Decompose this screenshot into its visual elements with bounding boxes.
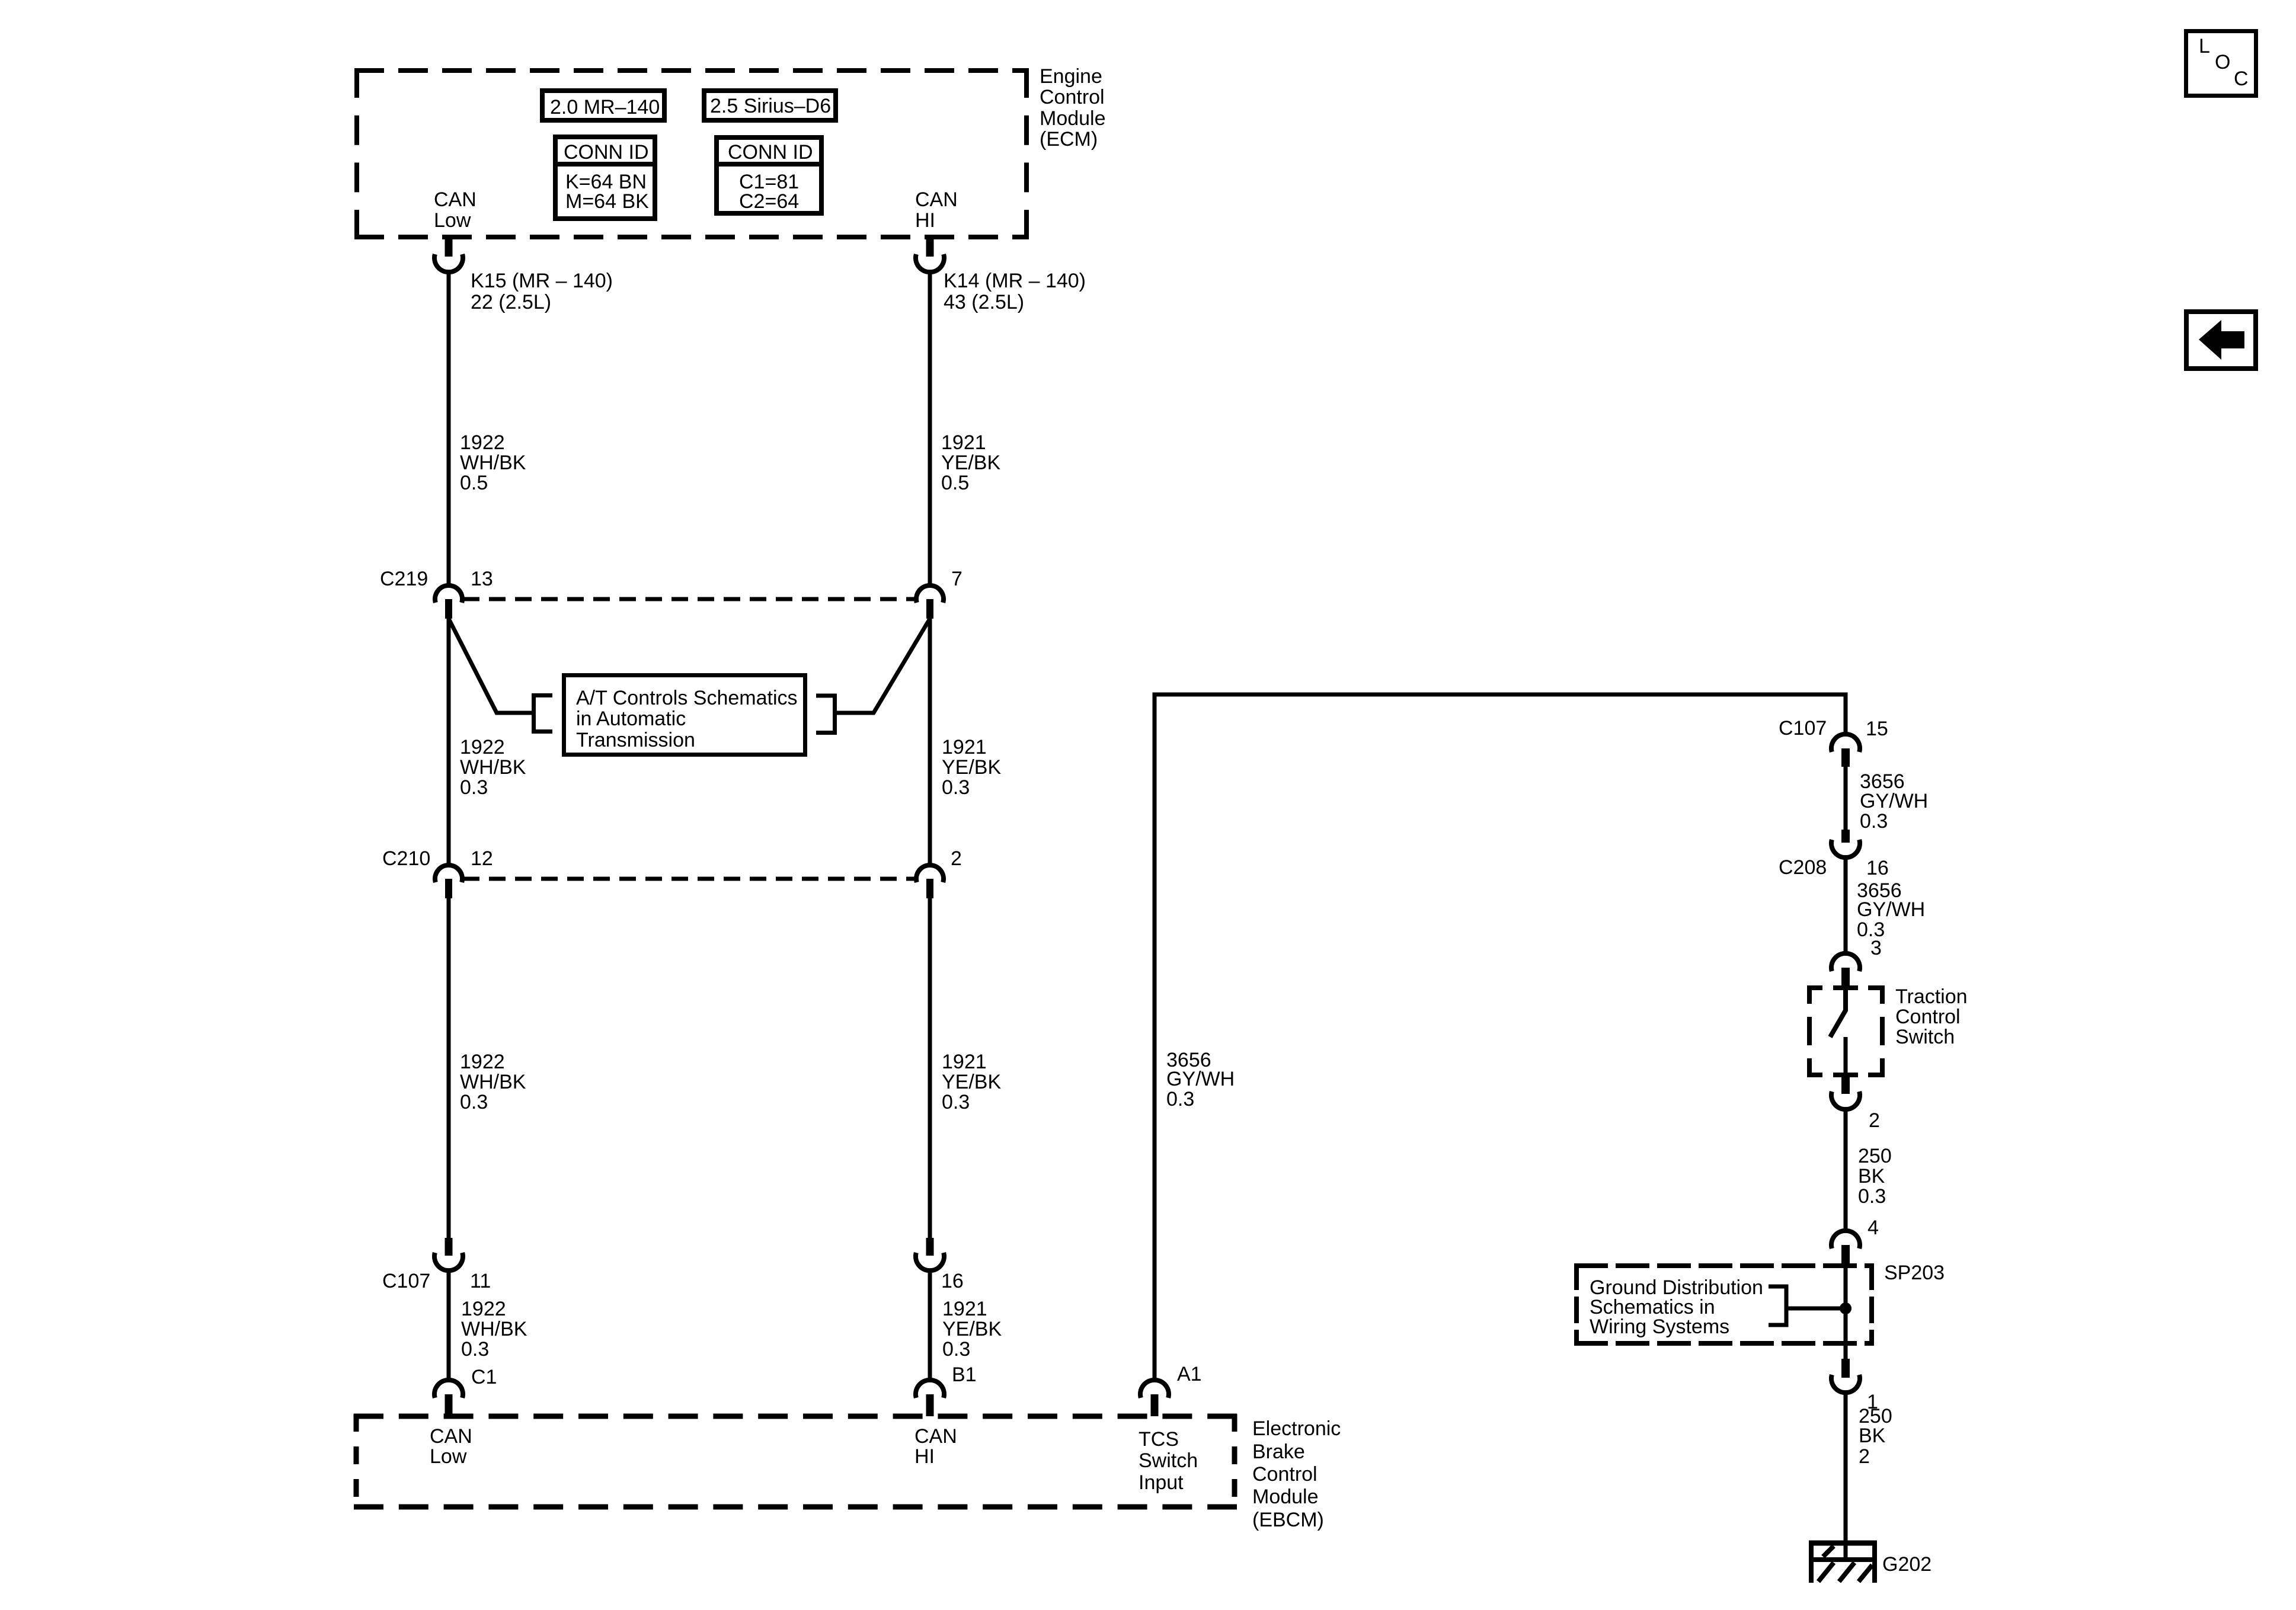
ECM module dashed box (Engine Control Module) — [354, 68, 1029, 239]
svg-text:CONN ID: CONN ID — [728, 141, 813, 164]
connector C219 pin 7 (dome and stub) — [916, 585, 944, 619]
connector A1 at EBCM (dome and stub) — [1140, 1380, 1169, 1416]
svg-text:11: 11 — [470, 1270, 491, 1292]
label K15 pin — [471, 270, 613, 313]
svg-text:Switch: Switch — [1895, 1026, 1955, 1048]
C210 in-line connector dashed line — [463, 877, 916, 881]
svg-text:0.3: 0.3 — [461, 1338, 489, 1361]
svg-text:Engine: Engine — [1040, 65, 1102, 88]
svg-text:2: 2 — [951, 847, 962, 870]
svg-text:M=64 BK: M=64 BK — [565, 190, 649, 213]
svg-text:Low: Low — [434, 209, 471, 232]
svg-text:WH/BK: WH/BK — [461, 1318, 527, 1340]
2.0 MR-140 variant box — [542, 91, 664, 120]
label K14 pin — [944, 270, 1086, 313]
C219 in-line connector dashed line — [463, 597, 916, 601]
svg-text:7: 7 — [951, 568, 962, 590]
Traction Control Switch dashed box — [1807, 985, 1885, 1077]
svg-text:YE/BK: YE/BK — [942, 1071, 1001, 1093]
svg-text:B1: B1 — [952, 1363, 977, 1386]
splice junction dot SP203 — [1840, 1302, 1851, 1314]
svg-text:WH/BK: WH/BK — [460, 756, 526, 779]
svg-text:43 (2.5L): 43 (2.5L) — [944, 291, 1024, 313]
connector C219 pin 13 (dome and stub) — [435, 585, 462, 619]
svg-text:Low: Low — [430, 1445, 467, 1468]
svg-text:YE/BK: YE/BK — [942, 756, 1001, 779]
svg-text:A1: A1 — [1177, 1363, 1202, 1385]
connector pin 2 at switch (stub and cup) — [1831, 1075, 1860, 1109]
connector C107 pin 15 (dome and stub) — [1831, 734, 1860, 767]
svg-text:0.3: 0.3 — [942, 1091, 970, 1113]
svg-text:Control: Control — [1040, 86, 1105, 108]
svg-text:GY/WH: GY/WH — [1166, 1068, 1235, 1090]
svg-text:CAN: CAN — [915, 188, 958, 211]
wire label 3656 GY/WH 0.3 (C208 to switch) — [1857, 879, 1925, 941]
connector B1 at EBCM (dome and stub) — [916, 1380, 944, 1416]
svg-text:C107: C107 — [382, 1270, 430, 1292]
svg-text:CAN: CAN — [914, 1425, 957, 1448]
2.5 Sirius-D6 variant box — [704, 91, 836, 120]
svg-text:Input: Input — [1139, 1471, 1184, 1494]
svg-text:in Automatic: in Automatic — [576, 708, 686, 730]
svg-text:O: O — [2215, 51, 2230, 73]
svg-text:GY/WH: GY/WH — [1860, 790, 1928, 812]
svg-text:CAN: CAN — [434, 188, 477, 211]
connector C107 pin 11 (stub and cup) — [434, 1238, 463, 1270]
EBCM pin label TCS Switch Input — [1139, 1428, 1198, 1494]
A/T Controls Schematics reference box — [564, 676, 805, 755]
Ground Distribution reference label — [1590, 1276, 1763, 1338]
connector C107 pin 16 (stub and cup) — [916, 1238, 944, 1270]
svg-text:2.5 Sirius–D6: 2.5 Sirius–D6 — [710, 95, 831, 117]
svg-text:1921: 1921 — [942, 736, 987, 758]
wire label 1922 WH/BK 0.5 — [460, 431, 526, 494]
EBCM module dashed box (Electronic Brake Control Module) — [354, 1414, 1237, 1509]
wire label 1922 WH/BK 0.3 (upper) — [460, 736, 526, 799]
svg-text:C210: C210 — [382, 847, 430, 870]
wire label 1921 YE/BK 0.3 (upper) — [942, 736, 1001, 799]
svg-text:0.3: 0.3 — [942, 1338, 970, 1361]
wire label 3656 GY/WH 0.3 (TCS riser) — [1166, 1049, 1235, 1110]
svg-text:CONN ID: CONN ID — [564, 141, 649, 164]
svg-text:0.3: 0.3 — [460, 776, 488, 799]
svg-text:BK: BK — [1859, 1425, 1886, 1447]
bracket left of A/T controls box — [534, 696, 553, 732]
svg-text:Switch: Switch — [1139, 1449, 1198, 1472]
wire label 1921 YE/BK 0.3 (lower) — [942, 1298, 1002, 1361]
switch blade (open) — [1830, 990, 1846, 1037]
svg-text:13: 13 — [471, 568, 493, 590]
svg-text:12: 12 — [471, 847, 493, 870]
svg-text:G202: G202 — [1882, 1553, 1932, 1576]
wire CAN HI C210 to C107 — [928, 898, 932, 1238]
svg-text:SP203: SP203 — [1884, 1262, 1945, 1284]
svg-text:Module: Module — [1252, 1486, 1319, 1508]
svg-text:0.5: 0.5 — [941, 472, 969, 494]
svg-text:Electronic: Electronic — [1252, 1417, 1341, 1440]
svg-text:GY/WH: GY/WH — [1857, 898, 1925, 921]
wire C107 to C208 — [1844, 767, 1848, 830]
svg-text:L: L — [2199, 35, 2210, 57]
svg-text:Module: Module — [1040, 107, 1106, 130]
svg-text:2: 2 — [1859, 1445, 1870, 1468]
svg-text:HI: HI — [915, 209, 935, 232]
svg-text:0.3: 0.3 — [460, 1091, 488, 1113]
wire branch to A/T controls (right diagonal) — [837, 619, 930, 713]
wire label 250 BK 0.3 — [1858, 1145, 1892, 1208]
bracket right of A/T controls box — [816, 696, 835, 733]
wire CAN Low from ECM to C219 — [447, 271, 451, 586]
connector C210 pin 2 (dome and stub) — [916, 865, 944, 898]
wire branch to A/T controls (left diagonal) — [449, 619, 532, 713]
svg-text:K15 (MR – 140): K15 (MR – 140) — [471, 270, 613, 292]
wire CAN HI from ECM to C219 — [928, 271, 932, 586]
ECM pin label CAN HI — [915, 188, 958, 232]
wire CAN Low C210 to C107 — [447, 898, 451, 1238]
svg-text:0.3: 0.3 — [1166, 1088, 1194, 1110]
svg-text:C208: C208 — [1779, 856, 1827, 879]
connector K14 at ECM (stub and cup) — [916, 237, 944, 272]
back-arrow navigation box — [2186, 312, 2256, 369]
svg-text:WH/BK: WH/BK — [460, 452, 526, 474]
LOC reference box — [2186, 31, 2256, 96]
svg-text:Control: Control — [1895, 1006, 1961, 1028]
ECM module name label — [1040, 65, 1106, 151]
svg-text:WH/BK: WH/BK — [460, 1071, 526, 1093]
svg-text:1921: 1921 — [941, 431, 986, 454]
ECM pin label CAN Low — [434, 188, 477, 232]
CONN ID table (2.0 MR-140) — [553, 137, 657, 219]
svg-text:16: 16 — [941, 1270, 964, 1292]
Traction Control Switch label — [1895, 985, 1968, 1048]
svg-text:1922: 1922 — [460, 431, 505, 454]
connector pin 4 (dome and stub) — [1831, 1231, 1860, 1266]
svg-text:A/T Controls Schematics: A/T Controls Schematics — [576, 687, 798, 709]
wire label 1922 WH/BK 0.3 (lower) — [461, 1298, 527, 1361]
wire CAN Low C107 to EBCM — [447, 1270, 451, 1381]
wire TCS switch input from EBCM up and over to C107 — [1155, 694, 1846, 1380]
svg-text:BK: BK — [1858, 1165, 1885, 1188]
svg-text:1922: 1922 — [461, 1298, 506, 1320]
EBCM pin label CAN HI — [914, 1425, 957, 1468]
Ground Distribution / SP203 dashed box — [1574, 1263, 1874, 1346]
svg-text:1922: 1922 — [460, 1051, 505, 1073]
CONN ID table (2.5 Sirius-D6) — [714, 137, 824, 213]
switch bottom contact crossbar — [1833, 1073, 1858, 1077]
wire CAN HI C107 to EBCM — [928, 1270, 932, 1381]
switch lower contact — [1844, 1037, 1848, 1075]
svg-text:22 (2.5L): 22 (2.5L) — [471, 291, 551, 313]
wire C208 to traction control switch — [1844, 857, 1848, 954]
wire switch to SP203 — [1844, 1109, 1848, 1231]
svg-text:Transmission: Transmission — [576, 729, 695, 751]
connector C208 pin 16 (stub and cup) — [1831, 830, 1860, 857]
connector pin 1 below SP203 (stub and cup) — [1831, 1359, 1860, 1393]
svg-text:(EBCM): (EBCM) — [1252, 1509, 1324, 1531]
svg-text:2.0 MR–140: 2.0 MR–140 — [550, 96, 660, 119]
svg-text:K14 (MR – 140): K14 (MR – 140) — [944, 270, 1086, 292]
svg-text:Control: Control — [1252, 1463, 1318, 1486]
connector C1 at EBCM (dome and stub) — [434, 1380, 463, 1416]
svg-text:1922: 1922 — [460, 736, 505, 758]
svg-text:C2=64: C2=64 — [739, 190, 799, 213]
svg-text:0.3: 0.3 — [1858, 1185, 1886, 1208]
wire bracket to splice — [1786, 1307, 1846, 1311]
svg-text:C107: C107 — [1779, 717, 1827, 740]
bracket right of ground distribution text — [1769, 1286, 1786, 1325]
svg-text:HI: HI — [914, 1445, 935, 1468]
svg-text:C: C — [2234, 68, 2249, 90]
wire label 1921 YE/BK 0.5 — [941, 431, 1000, 494]
svg-text:Brake: Brake — [1252, 1441, 1305, 1463]
svg-text:C219: C219 — [380, 568, 428, 590]
connector K15 at ECM (stub and cup) — [434, 237, 463, 272]
wire label 3656 GY/WH 0.3 (C107 to C208) — [1860, 770, 1928, 833]
svg-text:YE/BK: YE/BK — [941, 452, 1000, 474]
svg-text:1921: 1921 — [942, 1051, 987, 1073]
switch top contact crossbar — [1833, 985, 1858, 990]
svg-text:C1: C1 — [471, 1366, 497, 1388]
ground symbol G202 — [1809, 1541, 1877, 1583]
connector pin 3 at switch (dome and stub) — [1831, 953, 1860, 985]
svg-text:(ECM): (ECM) — [1040, 128, 1098, 151]
svg-text:2: 2 — [1869, 1109, 1880, 1132]
svg-text:0.3: 0.3 — [1860, 810, 1888, 833]
svg-text:0.3: 0.3 — [942, 776, 970, 799]
svg-text:3: 3 — [1870, 937, 1882, 959]
wire label 250 BK 2 — [1859, 1405, 1892, 1468]
svg-text:TCS: TCS — [1139, 1428, 1179, 1451]
wire CAN HI C219 to C210 — [928, 619, 932, 866]
svg-text:Traction: Traction — [1895, 985, 1968, 1008]
EBCM pin label CAN Low — [430, 1425, 472, 1468]
wire to ground G202 — [1844, 1393, 1848, 1543]
svg-text:4: 4 — [1868, 1217, 1879, 1239]
svg-text:0.5: 0.5 — [460, 472, 488, 494]
connector C210 pin 12 (dome and stub) — [435, 865, 462, 898]
EBCM module name label — [1252, 1417, 1341, 1531]
wire label 1921 YE/BK 0.3 (middle) — [942, 1051, 1001, 1113]
wire label 1922 WH/BK 0.3 (middle) — [460, 1051, 526, 1113]
svg-text:CAN: CAN — [430, 1425, 472, 1448]
svg-text:YE/BK: YE/BK — [942, 1318, 1002, 1340]
svg-text:16: 16 — [1866, 857, 1889, 879]
svg-text:Wiring Systems: Wiring Systems — [1590, 1315, 1729, 1338]
wire CAN Low C219 to C210 — [447, 619, 451, 866]
svg-text:15: 15 — [1866, 718, 1888, 740]
wire through SP203 box — [1844, 1266, 1848, 1359]
svg-text:1921: 1921 — [942, 1298, 987, 1320]
svg-text:250: 250 — [1858, 1145, 1892, 1167]
